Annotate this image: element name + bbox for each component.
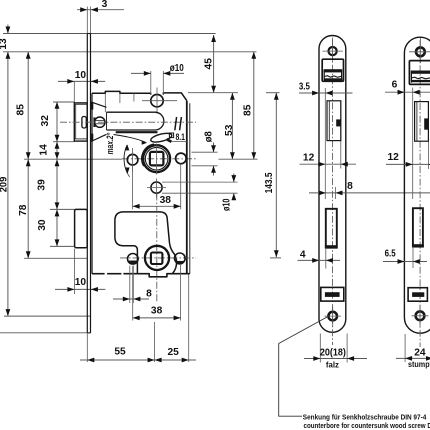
falz inner vertical lines: [324, 98, 326, 199]
dimension 12 falz: [300, 163, 357, 165]
svg-text:20(18): 20(18): [320, 348, 346, 359]
svg-text:55: 55: [114, 347, 126, 358]
falz faceplate outline: [319, 36, 346, 333]
stumpf logo box: [408, 288, 427, 302]
deadbolt head outside faceplate: [75, 209, 88, 247]
svg-text:53: 53: [224, 124, 235, 136]
latch adjusting screw: [95, 117, 105, 127]
lock case right edge double line: [186, 101, 188, 274]
max.2 leader arrow: [114, 135, 146, 143]
dimension 85 right: [253, 52, 255, 159]
svg-text:8: 8: [347, 181, 353, 192]
follower nut outer circles: [143, 145, 170, 172]
falz bottom screw hole: [328, 312, 337, 321]
svg-text:24: 24: [414, 347, 426, 358]
falz plate centerline: [332, 40, 334, 346]
svg-text:max.2°: max.2°: [105, 133, 116, 155]
dimension line column 32/14/39/30: [56, 102, 58, 247]
leader line to countersunk screw note: [279, 315, 330, 416]
leader dimension o10 top hole: [150, 71, 152, 95]
svg-text:13: 13: [0, 38, 9, 50]
fixing hole right of follower: [176, 153, 187, 164]
svg-text:12: 12: [303, 153, 315, 164]
dimension 12 stumpf: [386, 163, 430, 165]
lower hole o10: [151, 182, 162, 193]
svg-text:4: 4: [300, 250, 306, 261]
horizontal extension line 13mm below plate top: [3, 51, 257, 53]
dimension 38 upper (hole spacing): [132, 165, 134, 209]
dimension 4 falz: [298, 259, 341, 261]
dimension 3 (faceplate thickness) top: [77, 9, 124, 11]
svg-text:ø8: ø8: [203, 131, 214, 143]
falz deadbolt opening: [326, 209, 337, 248]
follower horizontal centerline: [122, 158, 196, 160]
internal vertical lines below case top: [104, 93, 106, 112]
ellipse detail mark near follower: [150, 132, 173, 144]
fixing hole left of follower: [127, 154, 138, 165]
stumpf inner vertical lines: [412, 98, 414, 199]
follower centerlines: [156, 144, 158, 175]
falz top screw hole countersunk: [329, 47, 337, 55]
svg-text:falz: falz: [326, 359, 339, 369]
dimension 45 right of top hole: [213, 35, 215, 93]
extension lines for left dims: [53, 101, 75, 103]
stumpf deadbolt opening: [413, 208, 423, 246]
dimension 6.5 stumpf: [383, 261, 427, 263]
lock case bottom edge with tab: [92, 273, 105, 275]
svg-text:10: 10: [75, 70, 87, 81]
svg-text:45: 45: [204, 58, 215, 70]
dimension 10 bottom (deadbolt protrusion): [55, 288, 105, 290]
bottom right screw hole: [175, 253, 186, 264]
svg-text:85: 85: [16, 104, 27, 116]
stumpf latch opening: [409, 61, 430, 85]
dimension 53 right: [231, 93, 233, 160]
dimension 143.5: [275, 93, 277, 258]
horizontal centerline bottom follower: [120, 257, 196, 259]
extension case top right: [188, 92, 238, 94]
falz latch bolt visible: [323, 70, 325, 81]
svg-text:32: 32: [40, 115, 51, 127]
svg-text:3: 3: [102, 0, 108, 10]
svg-text:85: 85: [242, 104, 253, 116]
dimension 20(18) falz: [319, 334, 321, 363]
svg-text:8: 8: [146, 288, 152, 299]
extension line at faceplate bottom: [0, 332, 87, 334]
dimension 24 stumpf: [404, 334, 406, 362]
top hole diameter 10: [151, 95, 163, 107]
lock case front edge behind faceplate: [91, 93, 93, 274]
svg-text:6.5: 6.5: [385, 249, 396, 260]
extension line at y316: [4, 315, 91, 317]
latch centerline: [60, 121, 196, 123]
dimension o10 lower hole: [162, 181, 238, 183]
svg-text:stumpf: stumpf: [408, 359, 430, 369]
follower rotated ghost arc: [142, 144, 154, 166]
svg-text:39: 39: [37, 179, 48, 191]
horizontal extension line: faceplate top edge level: [3, 33, 216, 35]
dimension 8 falz and shared line: [309, 192, 430, 194]
bottom follower nut WC: [145, 246, 169, 270]
svg-text:25: 25: [168, 347, 180, 358]
internal cover plate contour (cloud shape): [115, 212, 177, 274]
falz latch opening: [322, 59, 343, 81]
dimension 8 bottom left: [129, 266, 131, 304]
vertical centerline through followers: [156, 194, 158, 304]
svg-text:143.5: 143.5: [264, 172, 275, 193]
spring symbol parallel ticks: [175, 117, 177, 130]
svg-text:10: 10: [75, 277, 87, 288]
rotation arc with arrows max 2deg: [124, 145, 127, 173]
follower square 8mm hole: [150, 152, 164, 166]
bottom follower square: [151, 253, 163, 265]
falz case block behind plate: [327, 101, 341, 141]
svg-text:ø10: ø10: [170, 63, 184, 74]
latch bolt bar: [107, 112, 164, 130]
svg-text:3.5: 3.5: [299, 82, 310, 93]
svg-text:38: 38: [151, 306, 163, 317]
dimension square 8 right (o8): [192, 151, 218, 153]
stumpf latch bolt visible: [410, 71, 412, 83]
dimension 38 bottom: [132, 266, 134, 321]
stumpf top screw hole countersunk: [416, 47, 425, 56]
extension follower center right part: [219, 158, 258, 160]
stumpf case block behind plate: [415, 102, 429, 142]
bottom left screw hole: [128, 253, 139, 264]
latch head outside faceplate: [74, 103, 87, 141]
dimension 78 left: [26, 159, 31, 166]
svg-text:209: 209: [0, 176, 10, 192]
svg-text:38: 38: [160, 195, 172, 206]
stumpf faceplate outline: [404, 37, 430, 333]
stumpf plate centerline: [419, 40, 421, 347]
dimension 6 stumpf: [385, 91, 430, 93]
dimension 55 and 25 bottom: [86, 334, 88, 363]
dimension 209 vertical line left: [7, 52, 9, 316]
faceplate (side view, 3mm bar): [86, 34, 88, 333]
svg-text:12: 12: [388, 152, 400, 163]
latch spring guide behind faceplate: [91, 102, 107, 107]
latch guide rail thick line: [116, 131, 158, 133]
latch tip nub: [82, 117, 86, 129]
svg-text:8.1: 8.1: [175, 132, 185, 142]
svg-text:ø10: ø10: [222, 198, 233, 211]
label square 8.1: [169, 133, 173, 138]
svg-text:counterbore for countersunk wo: counterbore for countersunk wood screw D…: [304, 421, 430, 430]
svg-text:14: 14: [39, 144, 50, 156]
stumpf bottom screw hole: [416, 311, 425, 320]
dimension 85 left: [27, 52, 29, 258]
dimension 13 left edge: [7, 25, 9, 34]
dimension 3.5 falz: [299, 92, 353, 94]
dimension 10 top (latch protrusion): [58, 80, 105, 82]
lock case top edge with tab: [92, 91, 151, 94]
falz logo box: [321, 287, 344, 301]
svg-text:6: 6: [392, 80, 398, 91]
svg-text:30: 30: [37, 219, 48, 231]
svg-text:78: 78: [18, 204, 29, 216]
